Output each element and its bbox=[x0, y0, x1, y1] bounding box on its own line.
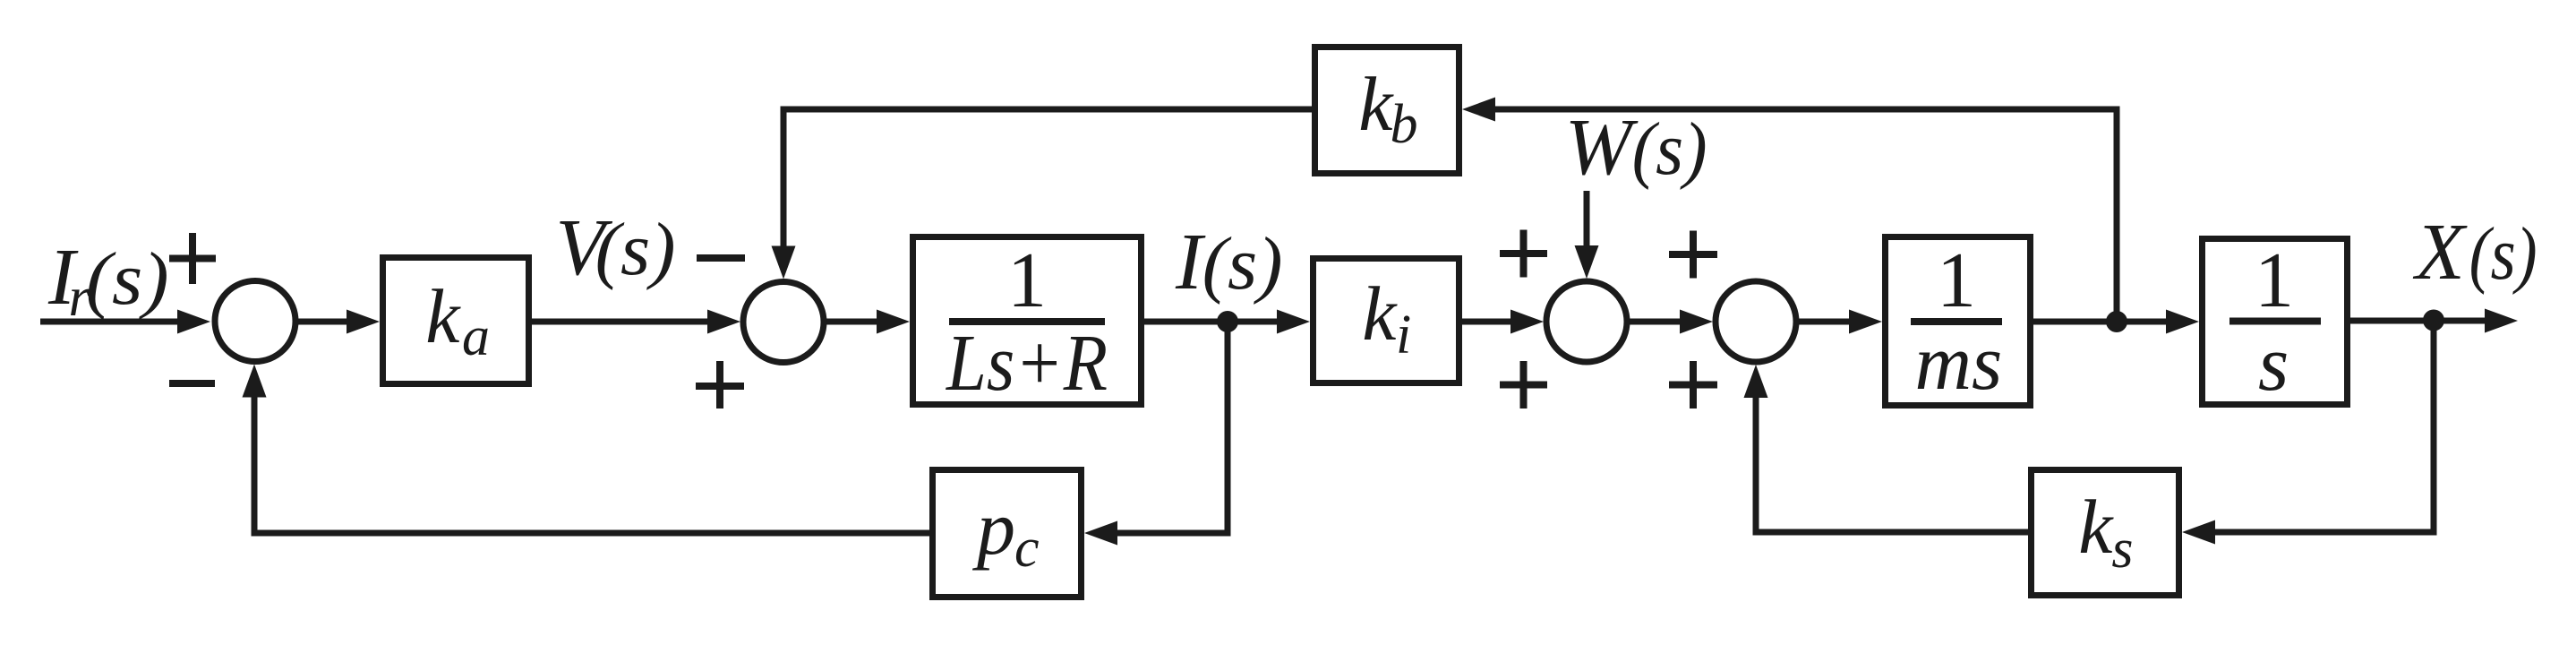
svg-text:s: s bbox=[2258, 321, 2289, 408]
wire S1 to ka bbox=[298, 319, 350, 325]
wire S4 to block G2 bbox=[1797, 319, 1853, 325]
plus sign below left of S3 bbox=[1500, 382, 1547, 389]
wire feedback ks: output node down, left into ks bbox=[2212, 321, 2434, 532]
arrowhead up into S4 bottom bbox=[1744, 365, 1768, 398]
wire output bbox=[2350, 318, 2488, 324]
svg-text:(s): (s) bbox=[1202, 222, 1283, 305]
block G2 box 1/ms bbox=[1886, 237, 2031, 406]
arrowhead down into S2 top bbox=[772, 246, 796, 279]
arrowhead into pc right side bbox=[1084, 521, 1117, 546]
plus sign below left of S2 bbox=[696, 383, 744, 390]
arrowhead into ki bbox=[1277, 310, 1310, 334]
svg-text:1: 1 bbox=[1007, 237, 1047, 324]
wire G1 to ki with node I(s) bbox=[1144, 319, 1280, 325]
summing junction S3 bbox=[1546, 281, 1627, 362]
wire ki to S3 bbox=[1462, 319, 1514, 325]
block ka box bbox=[383, 258, 529, 384]
svg-text:k: k bbox=[425, 273, 461, 359]
svg-text:(s): (s) bbox=[86, 237, 169, 321]
summing junction S1 bbox=[215, 281, 295, 362]
plus sign above left of S4 bbox=[1669, 251, 1717, 258]
arrowhead into ks right side bbox=[2182, 520, 2215, 545]
summing junction S4 bbox=[1716, 281, 1796, 362]
svg-text:W: W bbox=[1565, 103, 1639, 192]
svg-text:k: k bbox=[2078, 484, 2114, 570]
arrowhead into S4 left bbox=[1680, 310, 1713, 334]
node after 1/ms junction dot bbox=[2106, 311, 2127, 332]
svg-text:s: s bbox=[2111, 519, 2133, 580]
wire ka to S2 bbox=[532, 319, 711, 325]
svg-text:Ls+R: Ls+R bbox=[945, 319, 1108, 408]
svg-text:c: c bbox=[1014, 518, 1040, 579]
svg-text:(s): (s) bbox=[595, 208, 676, 291]
arrowhead output bbox=[2485, 309, 2518, 333]
wire input bbox=[40, 319, 181, 325]
block kb box bbox=[1315, 47, 1459, 174]
arrowhead into G2 bbox=[1849, 310, 1882, 334]
arrowhead into G3 bbox=[2166, 310, 2199, 334]
block G3 box 1/s bbox=[2203, 239, 2348, 405]
arrowhead into S3 left bbox=[1511, 310, 1544, 334]
block ki box bbox=[1314, 259, 1459, 383]
block G1 box 1/(Ls+R) bbox=[913, 237, 1142, 405]
block ks box bbox=[2032, 470, 2179, 596]
svg-text:k: k bbox=[1358, 61, 1394, 147]
wire G2 to G3 with node bbox=[2033, 319, 2169, 325]
wire pc out: left then up into S1 bbox=[254, 394, 929, 533]
wire ks out: left then up into S4 bbox=[1756, 395, 2028, 532]
minus sign after V(s) bbox=[697, 254, 745, 262]
block pc box bbox=[933, 470, 1082, 598]
plus sign above left of S3 bbox=[1500, 250, 1547, 257]
node I(s) junction dot bbox=[1217, 311, 1238, 332]
svg-text:(s): (s) bbox=[2469, 212, 2537, 296]
fraction bar G3 bbox=[2229, 318, 2321, 325]
arrowhead into ka bbox=[347, 310, 380, 334]
wire S3 to S4 bbox=[1628, 319, 1683, 325]
svg-text:b: b bbox=[1391, 94, 1418, 155]
svg-text:X: X bbox=[2413, 208, 2468, 297]
svg-text:1: 1 bbox=[1937, 237, 1976, 324]
svg-text:1: 1 bbox=[2255, 237, 2294, 324]
arrowhead into kb right side bbox=[1462, 98, 1495, 122]
minus sign below S1 bbox=[169, 380, 215, 387]
arrowhead W(s) down into S3 top bbox=[1575, 245, 1599, 279]
svg-text:k: k bbox=[1362, 271, 1398, 357]
arrowhead up into S1 bottom bbox=[243, 365, 267, 398]
arrowhead into G1 bbox=[877, 310, 910, 334]
wire kb out: left then down into S2 bbox=[783, 109, 1312, 251]
svg-text:p: p bbox=[971, 485, 1015, 571]
fraction bar G2 bbox=[1911, 318, 2002, 325]
arrowhead into S2 left bbox=[707, 310, 740, 334]
wire feedback pc: node I(s) down, left into pc bbox=[1114, 322, 1228, 533]
fraction bar G1 bbox=[949, 318, 1105, 325]
wire S2 to block G1 bbox=[825, 319, 880, 325]
svg-text:ms: ms bbox=[1915, 320, 2003, 407]
wire W(s) drop into S3 bbox=[1584, 191, 1590, 251]
svg-text:i: i bbox=[1396, 305, 1411, 365]
node output junction dot bbox=[2423, 310, 2444, 331]
svg-text:a: a bbox=[462, 306, 490, 367]
plus sign at input bbox=[169, 255, 216, 262]
svg-text:(s): (s) bbox=[1632, 107, 1707, 191]
summing junction S2 bbox=[743, 282, 824, 363]
wire feedback kb: node up and left into kb bbox=[1492, 109, 2117, 322]
plus sign below left of S4 bbox=[1669, 382, 1717, 389]
arrowhead into S1 bbox=[177, 310, 210, 334]
